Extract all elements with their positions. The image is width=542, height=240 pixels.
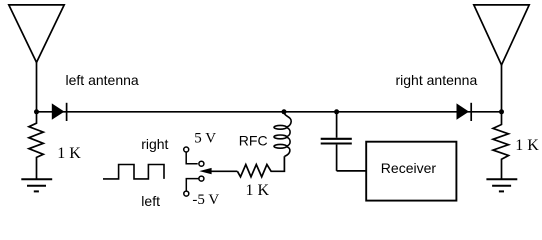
svg-text:left antenna: left antenna: [66, 72, 139, 88]
capacitor C1: [321, 112, 352, 171]
svg-text:right: right: [141, 136, 168, 152]
right antenna: [474, 5, 529, 65]
wire: capacitor to receiver: [337, 170, 367, 172]
ground (right): [486, 179, 517, 191]
svg-text:1 K: 1 K: [246, 182, 270, 199]
square wave (control signal): [103, 165, 164, 179]
wire: pole to resistor R3: [211, 170, 238, 172]
svg-text:RFC: RFC: [239, 133, 268, 149]
node: capacitor junction: [334, 109, 339, 114]
svg-text:1 K: 1 K: [515, 137, 539, 154]
svg-text:right antenna: right antenna: [396, 72, 478, 88]
inductor L1 (RFC): [274, 113, 291, 157]
svg-text:left: left: [141, 193, 160, 209]
receiver box: [366, 142, 456, 201]
diode D2: [457, 103, 472, 121]
resistor R2 (1 K, right): [493, 112, 509, 179]
wire: right antenna lead: [501, 65, 503, 112]
resistor R1 (1 K, left): [29, 112, 43, 179]
ground (left): [21, 179, 52, 191]
svg-text:-5 V: -5 V: [192, 192, 219, 208]
wire: left antenna lead: [36, 62, 38, 111]
wire: main bus: [37, 111, 502, 113]
node: RFC junction: [282, 109, 287, 114]
wire: 5V terminal to upper throw: [186, 152, 198, 164]
switch SW1: pole arrow: [199, 168, 211, 174]
switch SW1: 5V terminal: [184, 147, 189, 152]
svg-text:Receiver: Receiver: [381, 160, 437, 176]
resistor R3 (1 K, series): [237, 156, 284, 177]
diode D1: [52, 103, 67, 121]
node: left junction: [34, 109, 39, 114]
wire: lower throw to -5V terminal: [186, 179, 199, 192]
switch SW1: lower throw contact: [199, 176, 204, 181]
svg-text:5 V: 5 V: [194, 130, 216, 146]
switch SW1: upper throw contact: [199, 161, 204, 166]
svg-text:1 K: 1 K: [57, 145, 81, 162]
left antenna: [9, 5, 64, 63]
switch SW1: -5V terminal: [184, 191, 189, 196]
node: right junction: [499, 109, 504, 114]
